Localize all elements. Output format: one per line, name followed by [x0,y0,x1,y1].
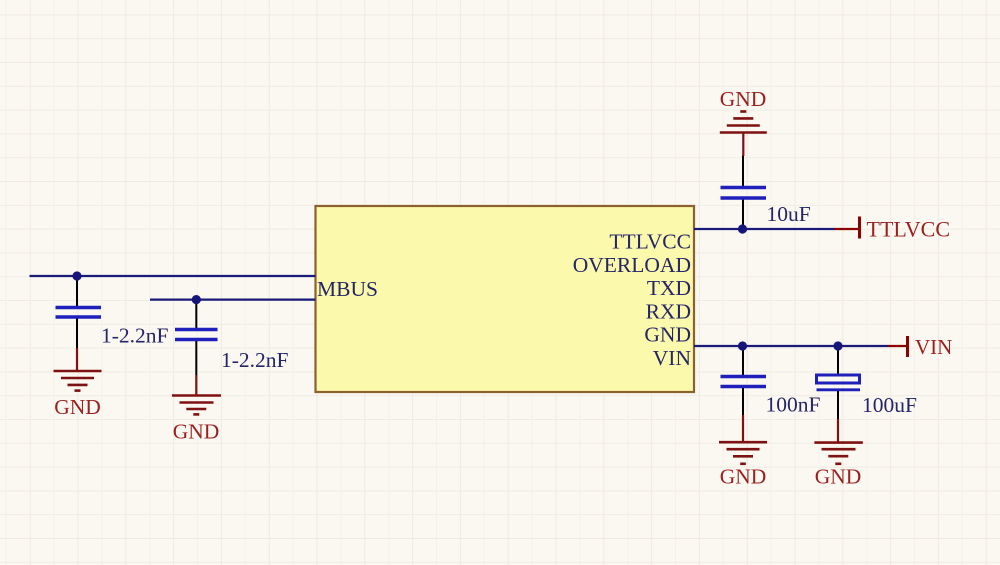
svg-text:TXD: TXD [647,276,691,300]
svg-text:GND: GND [644,323,691,347]
svg-text:GND: GND [173,420,220,444]
svg-text:VIN: VIN [653,346,692,370]
svg-text:GND: GND [815,464,862,488]
svg-text:10uF: 10uF [767,202,811,226]
svg-text:GND: GND [720,87,767,111]
svg-text:TTLVCC: TTLVCC [867,217,951,242]
svg-text:RXD: RXD [646,299,691,323]
svg-text:MBUS: MBUS [317,277,378,301]
svg-text:OVERLOAD: OVERLOAD [573,253,691,277]
svg-text:1-2.2nF: 1-2.2nF [221,348,289,372]
svg-text:GND: GND [54,395,101,419]
svg-text:100nF: 100nF [766,393,821,417]
svg-text:GND: GND [720,464,767,488]
svg-text:1-2.2nF: 1-2.2nF [101,324,169,348]
svg-text:TTLVCC: TTLVCC [609,230,691,254]
svg-text:VIN: VIN [915,335,952,359]
svg-text:100uF: 100uF [862,393,917,417]
